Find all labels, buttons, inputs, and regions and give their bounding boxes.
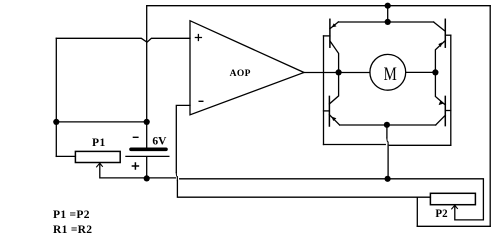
- svg-text:6V: 6V: [152, 136, 167, 148]
- transistor Q3 collector: [329, 72, 338, 104]
- transistor Q4 base lead: [445, 110, 451, 112]
- potentiometer P1 wiper arrow: [97, 163, 103, 167]
- transistor Q4 emitter: [436, 115, 446, 125]
- transistor Q1 emitter: [330, 22, 339, 29]
- wire bridge bottom rail: [340, 124, 436, 126]
- transistor Q1 base lead: [324, 35, 330, 37]
- wire bridge bottom feed lower part: [387, 145, 389, 179]
- wire base tie left part: [324, 144, 386, 146]
- wire op-amp output to motor: [304, 72, 370, 74]
- node junction dot battery feed: [144, 119, 150, 125]
- label battery plus: [132, 163, 138, 169]
- transistor Q3 bottom-left bar: [328, 96, 330, 126]
- wire inverting feed down to P2 line: [177, 180, 430, 197]
- transistor Q4 collector: [435, 72, 445, 105]
- wire op-amp noninverting input with hop over battery feed: [56, 38, 190, 42]
- wire op-amp inverting input lead: [176, 105, 190, 172]
- wire top supply rail: [147, 5, 490, 7]
- svg-text:P1 =P2: P1 =P2: [53, 209, 90, 221]
- transistor Q2 collector: [435, 41, 445, 73]
- transistor Q4 bottom-right bar: [444, 96, 446, 125]
- wire base tie right part: [389, 144, 450, 146]
- wire bridge top rail: [338, 21, 433, 23]
- transistor Q1 emitter arrow: [332, 23, 337, 27]
- transistor Q1 top-left bar: [329, 19, 331, 47]
- motor M circle: [370, 54, 406, 90]
- svg-text:AOP: AOP: [230, 69, 251, 79]
- potentiometer P2 body: [430, 193, 475, 204]
- node bridge top rail dot: [385, 19, 391, 25]
- wire motor right lead: [406, 71, 436, 73]
- node top rail dot: [385, 3, 391, 9]
- node bottom rail junction dot: [385, 176, 391, 182]
- label op-amp minus input: [199, 100, 203, 102]
- wire bridge bottom feed hop jog: [387, 138, 388, 145]
- battery B1 negative thick plate: [131, 148, 166, 152]
- svg-text:R1 =R2: R1 =R2: [53, 224, 92, 236]
- wire left battery feed vertical: [146, 6, 148, 148]
- wire right riser to top rail: [489, 6, 491, 227]
- transistor Q3 emitter arrow: [332, 117, 337, 121]
- transistor Q4 arrow: [439, 101, 444, 106]
- wire inverting feed hop jog: [176, 173, 177, 181]
- transistor Q2 arrow: [438, 42, 442, 47]
- svg-text:M: M: [384, 64, 397, 85]
- svg-text:P2: P2: [435, 208, 447, 220]
- node motor left junction dot: [336, 69, 342, 75]
- wire bridge bottom feed upper part: [386, 125, 388, 138]
- wire bottom return to right riser: [417, 225, 490, 227]
- transistor Q2 emitter lead from rail: [434, 22, 445, 31]
- transistor Q3 emitter: [329, 115, 339, 125]
- node battery bottom junction dot: [144, 175, 150, 181]
- node bridge bottom rail dot: [384, 122, 390, 128]
- wire left loop vertical to P1: [55, 38, 57, 156]
- battery B1 positive thin plate: [126, 155, 169, 157]
- label battery minus: [133, 136, 138, 138]
- transistor Q2 top-right bar: [444, 19, 446, 47]
- wire battery bottom lead: [146, 157, 148, 178]
- wire P1 wiper lead: [100, 164, 176, 178]
- potentiometer P2 wiper arrow: [452, 205, 458, 209]
- node motor right junction dot: [432, 69, 438, 75]
- transistor Q3 base lead: [324, 110, 330, 112]
- wire P1 left lead: [56, 155, 75, 157]
- wire top rail to bridge feed: [387, 6, 389, 22]
- wire right base line: [450, 35, 452, 145]
- node junction dot left: [53, 119, 59, 125]
- wire P2 left terminal down link: [416, 197, 418, 226]
- svg-text:P1: P1: [92, 137, 106, 149]
- wire feedback rail from hop to P2 wiper: [180, 179, 484, 220]
- wire link at y=122: [56, 121, 146, 123]
- wire left base line: [323, 36, 325, 145]
- op-amp U1 triangle: [190, 21, 304, 115]
- transistor Q1 collector: [330, 41, 339, 73]
- transistor Q2 base lead: [445, 34, 451, 36]
- label op-amp plus input: [195, 35, 201, 41]
- potentiometer P1 body: [75, 151, 120, 162]
